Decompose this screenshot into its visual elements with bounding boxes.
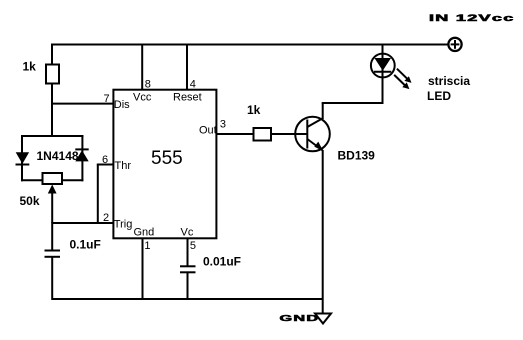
wire Out pin 3 to R2	[217, 133, 255, 135]
wire diode box bottom left	[21, 179, 43, 181]
svg-text:Trig: Trig	[114, 219, 133, 231]
transistor Q1 BD139	[295, 117, 330, 152]
wire pin 1 Gnd drop	[142, 238, 144, 300]
terminal IN 12Vcc (+)	[448, 38, 461, 51]
wire diode box top	[21, 135, 83, 137]
svg-text:Vcc: Vcc	[133, 92, 152, 104]
wire C2 to bottom rail	[187, 273, 189, 301]
wire diode box bottom right	[62, 179, 84, 181]
svg-text:1k: 1k	[247, 103, 261, 117]
wire bottom ground rail	[52, 298, 323, 300]
svg-text:8: 8	[145, 79, 151, 91]
wire top V+ rail	[52, 44, 449, 46]
svg-text:Gnd: Gnd	[134, 227, 155, 239]
wire diode box left	[21, 135, 23, 181]
wire pin 4 Reset drop	[186, 45, 188, 91]
LED emission arrow 2	[394, 75, 409, 89]
wire Dis branch	[51, 103, 113, 105]
svg-text:Dis: Dis	[114, 99, 130, 111]
LED emission arrow 1	[397, 69, 412, 83]
svg-text:7: 7	[104, 93, 110, 105]
wire Q1 collector up	[322, 103, 324, 119]
svg-text:4: 4	[190, 79, 196, 91]
svg-text:6: 6	[102, 154, 108, 166]
wire pin 8 Vcc drop	[141, 45, 143, 91]
svg-text:0.1uF: 0.1uF	[70, 238, 101, 252]
ground symbol	[315, 314, 331, 324]
svg-text:LED: LED	[427, 89, 451, 103]
svg-text:IN 12Vcc: IN 12Vcc	[429, 13, 515, 24]
svg-text:striscia: striscia	[428, 74, 470, 88]
svg-text:Reset: Reset	[173, 92, 202, 104]
svg-text:555: 555	[151, 148, 183, 169]
svg-text:2: 2	[103, 212, 109, 224]
IC U1 555 body	[113, 90, 216, 239]
wire collector to LED	[322, 102, 383, 104]
LED D3	[371, 44, 395, 105]
resistor R1 1k	[46, 65, 59, 84]
svg-text:Out: Out	[199, 125, 217, 137]
svg-text:3: 3	[220, 119, 226, 131]
wire pin 5 Vc to C2	[187, 238, 189, 266]
wire left branch: rail to R1	[51, 44, 53, 66]
wire diode box right	[81, 135, 83, 181]
diode D1 1N4148 (left, cathode down)	[16, 152, 30, 164]
wire Trig junction to C1	[51, 222, 53, 250]
svg-text:1k: 1k	[23, 60, 37, 74]
potentiometer RV1 50k body	[43, 173, 63, 184]
wire R1 to diode box top	[51, 83, 53, 137]
svg-text:Vc: Vc	[181, 227, 194, 239]
resistor R2 1k	[254, 128, 272, 141]
svg-text:BD139: BD139	[338, 149, 376, 163]
potentiometer RV1 wiper arrow	[48, 185, 57, 224]
wire Thr stub	[97, 164, 113, 166]
svg-text:5: 5	[190, 240, 196, 252]
wire Q1 emitter down to ground	[322, 150, 324, 314]
capacitor C1 0.1uF	[45, 251, 61, 257]
svg-text:0.01uF: 0.01uF	[203, 255, 241, 269]
svg-text:1N4148: 1N4148	[37, 149, 79, 163]
svg-text:Thr: Thr	[115, 160, 132, 172]
wire Trig rail	[52, 222, 113, 224]
wire C1 to bottom rail	[51, 257, 53, 300]
svg-text:GND: GND	[280, 313, 320, 323]
diode D2 1N4148 (right, cathode up)	[75, 149, 88, 161]
svg-text:1: 1	[144, 240, 150, 252]
svg-text:50k: 50k	[20, 194, 40, 208]
capacitor C2 0.01uF	[180, 266, 196, 272]
wire R2 to Q1 base	[271, 133, 307, 135]
wire Thr vertical link	[97, 165, 99, 225]
